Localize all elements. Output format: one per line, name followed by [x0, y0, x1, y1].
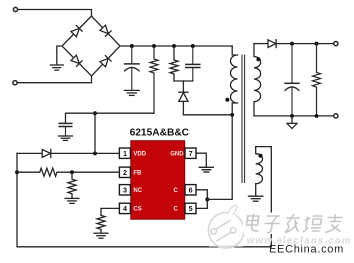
ground (output, open triangle)	[287, 116, 297, 128]
svg-text:3: 3	[123, 186, 127, 195]
junction: return at R5	[315, 114, 319, 118]
ground (R6)	[94, 233, 108, 238]
junction: rail at C2	[191, 44, 195, 48]
junction: return at C4	[290, 114, 294, 118]
wire: VDD node to startup node	[94, 113, 96, 153]
diode BR1-D2 (upper-right edge)	[100, 25, 111, 36]
terminal J1 (AC input top)	[13, 7, 17, 11]
diode BR1-D1 (upper-left edge)	[71, 26, 82, 37]
resistor R2 (clamp)	[170, 46, 178, 81]
junction: startup node	[93, 111, 97, 115]
transformer T1 core	[242, 55, 245, 183]
terminal J2 (AC input bottom)	[13, 81, 17, 85]
wire: DC+ rail from bridge to transformer	[120, 45, 232, 47]
junction: switch node at clamp	[230, 113, 234, 117]
wire: secondary top to D6	[254, 43, 268, 45]
IC U1 body (6215A&B&C)	[119, 128, 196, 220]
wire: pin5 to switch node	[196, 199, 207, 208]
svg-text:NC: NC	[133, 188, 142, 194]
wire: left rail to D1	[17, 152, 42, 154]
svg-text:EEChina.com: EEChina.com	[269, 243, 344, 255]
wire: clamp to switch node	[183, 114, 232, 116]
ground (C3)	[59, 136, 73, 140]
resistor R4 (FB lower)	[68, 172, 76, 198]
ground (C1)	[124, 90, 139, 95]
wire: aux top to VCC rail right	[256, 147, 272, 247]
diode BR1-D3 (lower-left edge)	[71, 55, 82, 66]
wire: clamp RC bottom join	[174, 80, 193, 82]
transformer T1 primary	[231, 46, 238, 199]
watermark text 电子发烧友 (pseudo-glyphs)	[243, 213, 347, 235]
svg-text:4: 4	[123, 204, 127, 213]
wire: pin7 GND to ground	[196, 153, 206, 167]
terminal J4 (DC output -)	[334, 114, 338, 118]
junction: output+ at C4	[290, 42, 294, 46]
diode BR1-D4 (lower-right edge)	[100, 56, 111, 67]
watermark logo (elecfans)	[208, 205, 244, 248]
ground (R4)	[65, 198, 79, 203]
diode D1 (VDD supply)	[42, 149, 119, 157]
resistor R3 (FB upper)	[17, 168, 120, 176]
wire: VCC bottom rail and left rail	[17, 153, 271, 246]
junction: FB node	[70, 170, 74, 174]
wire: drain node to primary bottom	[207, 198, 232, 200]
terminal J3 (DC output +)	[334, 42, 338, 46]
transformer T1 aux winding	[256, 147, 263, 196]
wire: startup node to C3	[66, 113, 155, 123]
junction: output+ at R5	[315, 42, 319, 46]
pin 1 box	[119, 148, 196, 214]
junction: rail at R2	[172, 44, 176, 48]
capacitor C3 (VDD)	[59, 123, 72, 135]
resistor R1 (startup)	[150, 46, 158, 113]
svg-text:6215A&B&C: 6215A&B&C	[130, 128, 190, 139]
polarity dot: aux	[259, 154, 263, 158]
capacitor C1 (bulk electrolytic)	[125, 46, 139, 90]
wire: J2 to bridge bottom corner	[17, 76, 91, 83]
polarity dot: primary	[225, 98, 229, 102]
wire: bridge left corner to ground	[57, 46, 62, 65]
bridge rectifier BR1 frame	[62, 16, 120, 76]
wire: CS pin to R6	[101, 208, 120, 215]
junction: rail at C1	[130, 44, 134, 48]
junction: FB tap on left rail	[15, 170, 19, 174]
capacitor C4 (output electrolytic)	[285, 44, 299, 116]
svg-text:VDD: VDD	[133, 151, 146, 157]
ground (aux winding)	[249, 196, 263, 201]
junction: rail at R1	[152, 44, 156, 48]
polarity dot: secondary	[256, 57, 260, 61]
resistor R6 (current sense)	[97, 215, 105, 232]
pin name labels	[133, 151, 184, 212]
transformer T1 secondary	[254, 44, 261, 116]
svg-text:5: 5	[189, 204, 193, 213]
svg-text:7: 7	[189, 149, 193, 158]
resistor R5 (output load)	[313, 44, 321, 116]
svg-text:C: C	[173, 188, 178, 194]
svg-text:2: 2	[123, 168, 127, 177]
junction: VDD node	[93, 151, 97, 155]
svg-text:GND: GND	[170, 151, 184, 157]
svg-text:1: 1	[123, 149, 127, 158]
wire: output return rail	[254, 115, 334, 117]
diode D5 (clamp)	[179, 81, 188, 115]
diode D6 (output rectifier)	[268, 40, 334, 48]
capacitor C2 (clamp)	[186, 46, 200, 81]
ground (bridge negative)	[50, 65, 63, 70]
svg-text:6: 6	[189, 186, 193, 195]
wire: J1 to bridge top corner	[18, 10, 92, 17]
svg-text:FB: FB	[133, 171, 142, 177]
wire: pin6 to switch node	[196, 190, 207, 200]
ground (IC GND pin)	[199, 167, 213, 172]
svg-text:CS: CS	[133, 207, 141, 213]
junction: drain node	[205, 197, 209, 201]
pin numbers	[123, 149, 193, 213]
svg-text:C: C	[173, 207, 178, 213]
